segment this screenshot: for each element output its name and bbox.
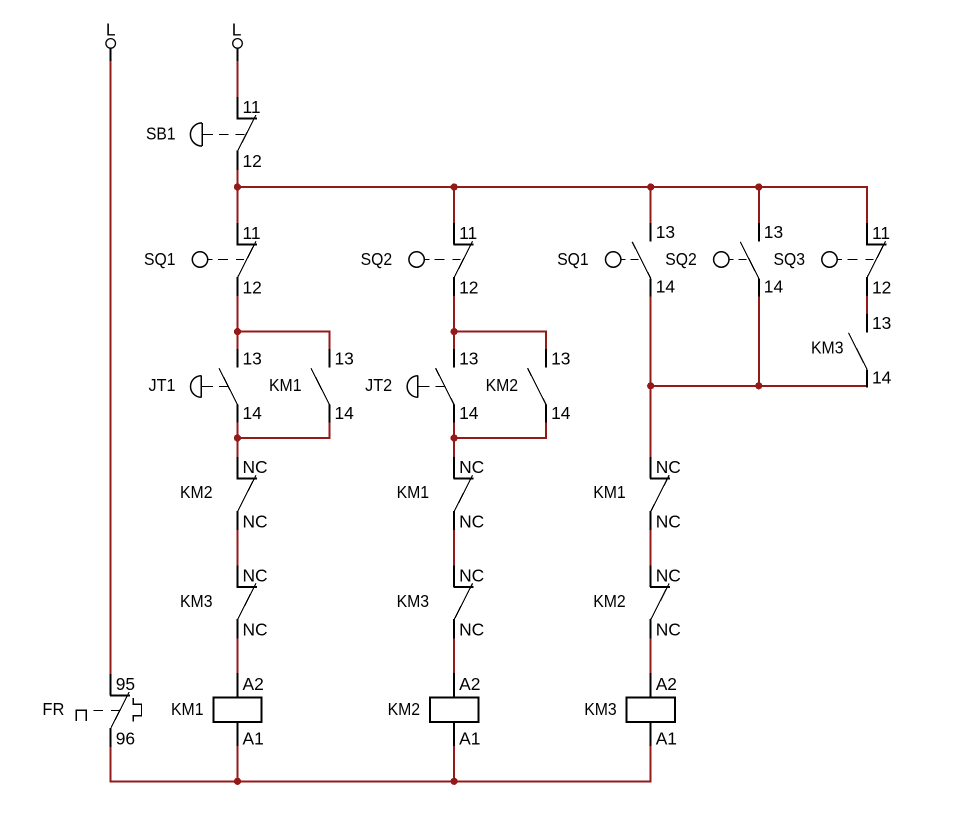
svg-text:A2: A2 (656, 674, 677, 694)
svg-text:13: 13 (459, 349, 478, 369)
svg-text:A1: A1 (243, 729, 264, 749)
svg-text:SQ2: SQ2 (361, 249, 393, 269)
svg-text:JT2: JT2 (365, 375, 392, 395)
svg-text:L: L (106, 19, 116, 39)
svg-text:NC: NC (656, 565, 681, 585)
svg-text:12: 12 (872, 278, 891, 298)
svg-text:KM2: KM2 (180, 482, 213, 502)
svg-text:SB1: SB1 (146, 123, 176, 143)
svg-text:KM3: KM3 (811, 338, 844, 358)
svg-text:FR: FR (42, 699, 64, 719)
svg-text:A1: A1 (656, 729, 677, 749)
svg-text:14: 14 (872, 368, 892, 388)
svg-text:12: 12 (243, 151, 262, 171)
svg-text:11: 11 (243, 97, 261, 117)
svg-text:12: 12 (459, 278, 478, 298)
svg-text:14: 14 (764, 277, 784, 297)
svg-text:13: 13 (764, 222, 783, 242)
svg-text:14: 14 (335, 403, 355, 423)
svg-text:13: 13 (551, 349, 570, 369)
svg-text:NC: NC (243, 565, 268, 585)
svg-text:NC: NC (656, 512, 681, 532)
svg-text:SQ1: SQ1 (557, 249, 589, 269)
svg-text:14: 14 (459, 403, 479, 423)
svg-text:KM3: KM3 (180, 591, 213, 611)
svg-text:A2: A2 (243, 674, 264, 694)
svg-text:KM2: KM2 (486, 375, 519, 395)
svg-text:11: 11 (459, 223, 477, 243)
svg-text:11: 11 (872, 223, 890, 243)
svg-text:NC: NC (459, 565, 484, 585)
svg-text:NC: NC (656, 620, 681, 640)
svg-text:95: 95 (116, 674, 135, 694)
svg-text:SQ2: SQ2 (665, 249, 697, 269)
svg-text:96: 96 (116, 728, 135, 748)
svg-text:13: 13 (243, 349, 262, 369)
svg-text:KM2: KM2 (593, 591, 626, 611)
svg-text:NC: NC (243, 457, 268, 477)
svg-text:KM3: KM3 (584, 699, 617, 719)
svg-text:14: 14 (243, 403, 263, 423)
svg-text:13: 13 (656, 222, 675, 242)
svg-text:KM1: KM1 (171, 699, 204, 719)
svg-text:14: 14 (656, 277, 676, 297)
svg-text:A1: A1 (459, 729, 480, 749)
svg-text:KM3: KM3 (397, 591, 430, 611)
svg-text:NC: NC (459, 620, 484, 640)
svg-text:SQ3: SQ3 (774, 249, 806, 269)
svg-text:11: 11 (243, 223, 261, 243)
svg-text:A2: A2 (459, 674, 480, 694)
svg-text:13: 13 (872, 313, 891, 333)
svg-text:NC: NC (243, 512, 268, 532)
svg-text:KM1: KM1 (593, 482, 626, 502)
svg-text:NC: NC (459, 457, 484, 477)
svg-text:13: 13 (335, 349, 354, 369)
svg-text:SQ1: SQ1 (144, 249, 176, 269)
svg-text:KM1: KM1 (269, 375, 302, 395)
svg-text:NC: NC (459, 512, 484, 532)
svg-text:L: L (232, 19, 242, 39)
svg-text:KM1: KM1 (397, 482, 430, 502)
svg-text:NC: NC (243, 620, 268, 640)
svg-text:12: 12 (243, 278, 262, 298)
svg-text:NC: NC (656, 457, 681, 477)
svg-text:KM2: KM2 (388, 699, 421, 719)
svg-text:JT1: JT1 (149, 375, 176, 395)
svg-text:14: 14 (551, 403, 571, 423)
